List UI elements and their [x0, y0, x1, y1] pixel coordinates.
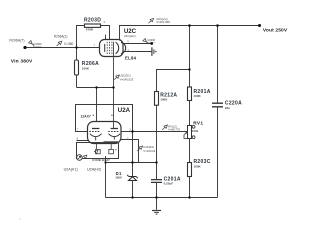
probe arrow R206A(T)	[29, 41, 35, 47]
node rail C220A	[216, 24, 219, 27]
wire U2C bottom pin	[113, 42, 115, 129]
wire R212A top net	[157, 70, 190, 92]
wire top rail to Vout	[120, 26, 260, 40]
wire main input H1	[25, 47, 100, 49]
wire U2C stub pin	[105, 35, 107, 40]
wire U2C pin5 stub	[124, 43, 152, 45]
svg-text:R206A(1): R206A(1)	[54, 35, 68, 39]
probe arrow U2A(K2)	[137, 146, 142, 151]
svg-text:U2A(H2): U2A(H2)	[87, 168, 101, 172]
U2A enclosure box upper	[76, 105, 133, 132]
resistor R203C	[188, 163, 192, 177]
node H3 right	[112, 86, 114, 88]
svg-text:R206A(T): R206A(T)	[9, 39, 24, 43]
svg-text:V=380: V=380	[64, 42, 74, 46]
wire R206A top lead	[76, 48, 78, 61]
svg-text:100K: 100K	[194, 165, 202, 169]
node pin5 end	[150, 42, 153, 45]
label pin1 mark	[93, 115, 94, 116]
svg-text:0.22uF: 0.22uF	[164, 182, 174, 186]
svg-text:12AX7: 12AX7	[80, 114, 90, 118]
svg-text:0.0000: 0.0000	[147, 38, 155, 42]
svg-text:EL84: EL84	[125, 56, 137, 61]
wire U2A grid pin7	[77, 131, 90, 133]
wire C201A leads	[156, 163, 158, 210]
wire C220A leads	[217, 26, 219, 198]
probe arrow R206A(1)	[57, 41, 62, 46]
svg-text:100K: 100K	[82, 67, 90, 71]
node y163 D1	[131, 161, 133, 163]
svg-text:V=245.023: V=245.023	[120, 77, 134, 81]
wire D1 vertical	[132, 132, 134, 198]
speck	[19, 218, 20, 219]
svg-text:0.0000: 0.0000	[33, 42, 42, 46]
wire R201A leads	[189, 26, 191, 126]
svg-text:V=98.779: V=98.779	[168, 128, 180, 132]
wire pin3 cathode2 net	[114, 140, 138, 163]
wire U2A left anode vertical	[96, 88, 98, 129]
probe arrow H2	[94, 150, 98, 153]
wire grid2 net to RV1	[119, 131, 188, 133]
probe arrow RV1(2)	[162, 125, 167, 130]
node y163 left	[104, 161, 106, 163]
svg-text:100K: 100K	[194, 94, 202, 98]
wire y163 net	[106, 162, 157, 164]
node Vout end	[258, 24, 261, 27]
wire H3 horizontal	[77, 87, 114, 89]
node R203D junction	[75, 46, 77, 48]
node rail R203C	[188, 196, 190, 198]
zener diode D1	[127, 175, 138, 181]
potentiometer RV1	[184, 125, 195, 138]
svg-text:Vin 380V: Vin 380V	[11, 59, 33, 65]
ground sideways at U2C pin4	[152, 47, 154, 56]
svg-text:100k: 100k	[192, 129, 199, 133]
U2C tube EL84	[100, 40, 126, 57]
node rail R201A	[188, 24, 191, 27]
node input dot	[23, 46, 26, 49]
resistor R201A	[188, 87, 192, 101]
node H3 left	[95, 86, 97, 88]
node R212A top	[188, 68, 190, 70]
node rail D1	[131, 196, 133, 198]
label pin6 mark	[111, 115, 112, 116]
wire R203D right lead to tube top	[101, 26, 110, 40]
ground at C201A	[152, 211, 161, 215]
resistor R203D	[85, 24, 101, 27]
U2A tube 12AX7	[88, 122, 122, 144]
svg-text:R203D: R203D	[84, 18, 101, 24]
svg-text:U2C: U2C	[124, 28, 137, 35]
wire cathode down	[105, 156, 107, 198]
probe circle K1	[77, 155, 83, 161]
label mark H2	[115, 149, 116, 150]
node rail C201A	[155, 196, 157, 198]
wire U2C pin4	[124, 51, 152, 53]
svg-text:U=0VB 12AX7: U=0VB 12AX7	[92, 158, 110, 162]
resistor R206A	[75, 60, 79, 75]
svg-text:U2A(K1): U2A(K1)	[64, 168, 78, 172]
capacitor C201A	[151, 180, 162, 183]
wire U2A cathode pin8	[77, 140, 96, 142]
svg-text:RV1: RV1	[193, 121, 203, 127]
node grid2	[131, 130, 133, 132]
wire R212A lower lead	[156, 105, 158, 162]
wire RV1 to R203C	[189, 139, 191, 198]
lower box inner parts	[96, 144, 114, 154]
svg-text:U2C(pH1): U2C(pH1)	[124, 34, 136, 38]
svg-text:Vout 250V: Vout 250V	[263, 28, 288, 34]
probe arrow rail V	[148, 18, 153, 23]
probe arrow U2C(D1)	[114, 75, 119, 80]
capacitor C220A	[212, 103, 223, 107]
probe arrow K1	[83, 155, 87, 158]
svg-text:V=100.02: V=100.02	[143, 149, 155, 153]
svg-text:V=251.098: V=251.098	[156, 20, 170, 24]
svg-text:U2A: U2A	[118, 107, 131, 114]
svg-text:100V: 100V	[115, 176, 122, 180]
svg-text:470R: 470R	[86, 28, 94, 32]
U2A enclosure box lower	[77, 143, 119, 159]
svg-text:100K: 100K	[160, 98, 168, 102]
wire R206A bottom lead	[76, 75, 78, 88]
resistor R212A	[155, 92, 159, 106]
wire R203D left lead	[77, 26, 85, 48]
svg-text:22u: 22u	[225, 106, 230, 110]
probe arrow pin5	[143, 39, 149, 45]
node y163 C201A	[155, 161, 157, 163]
wire bottom rail	[106, 197, 218, 199]
